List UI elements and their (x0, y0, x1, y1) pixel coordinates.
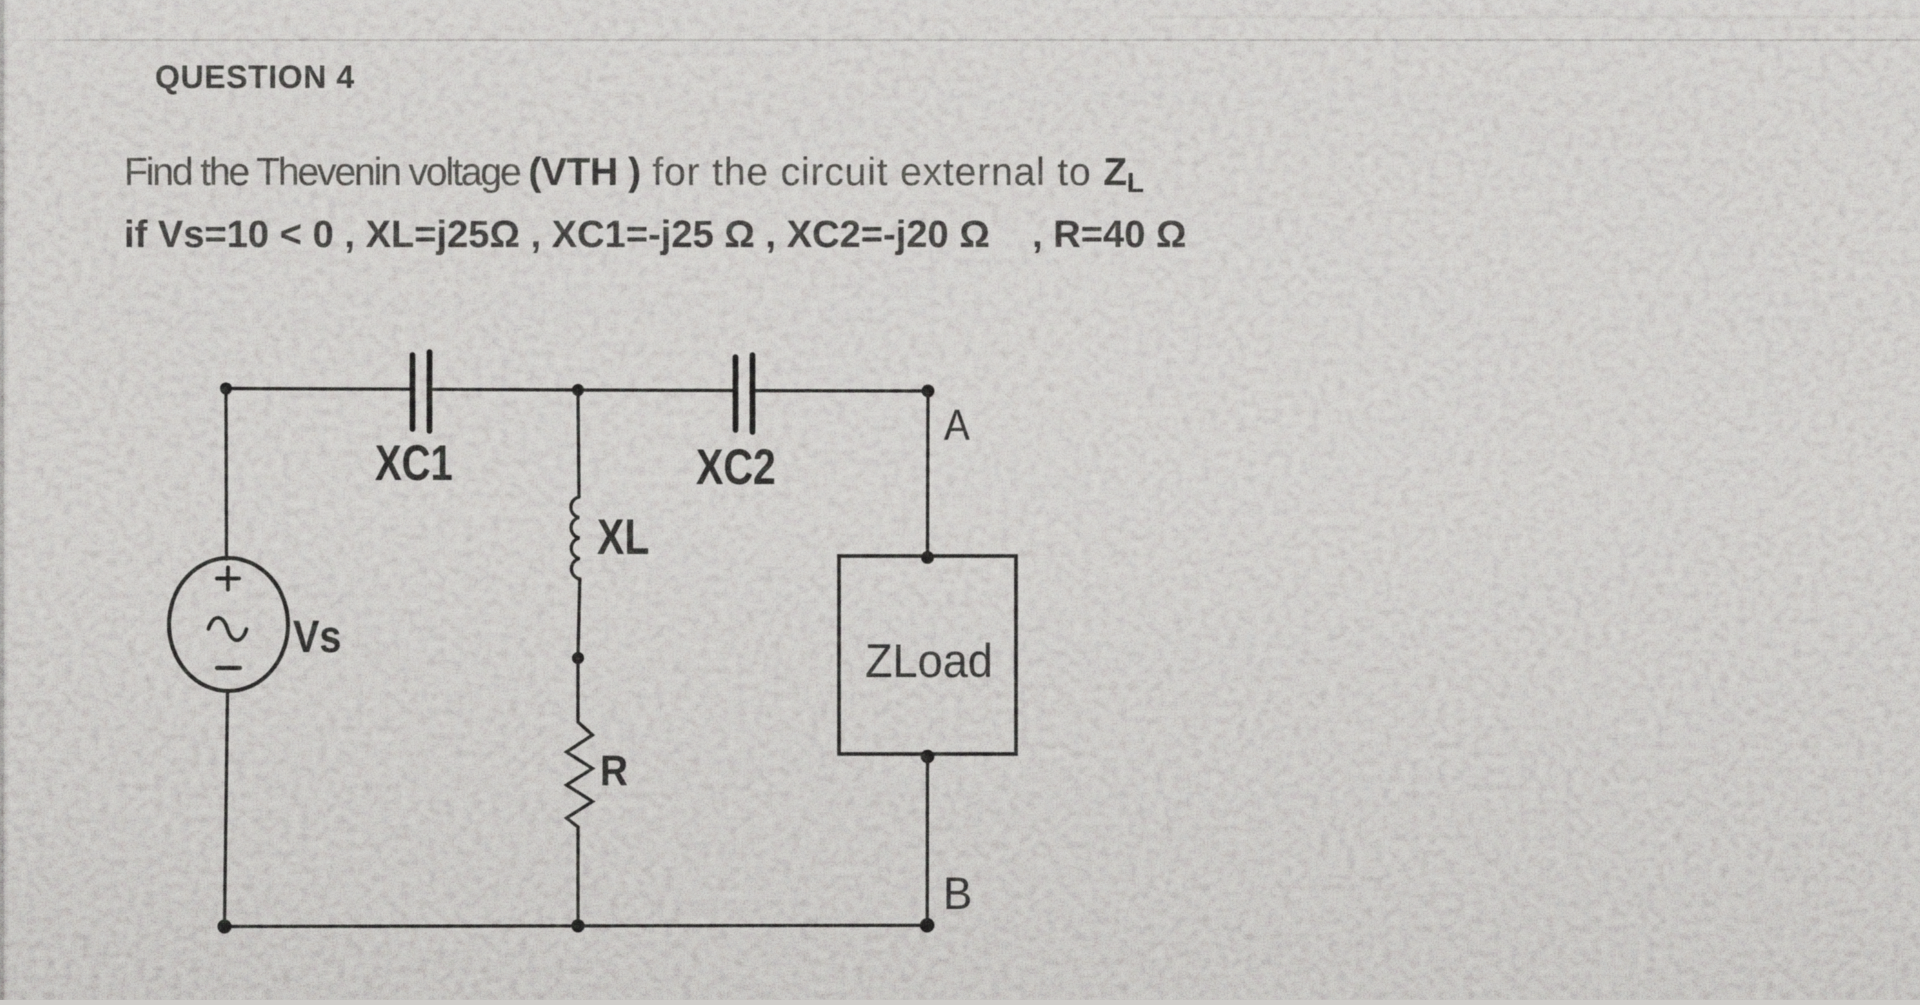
wire right vertical (node A to ZLoad) (926, 391, 930, 557)
node ZLoad top dot (921, 551, 934, 564)
node bottom-left dot (218, 920, 232, 934)
node B junction dot (920, 918, 934, 932)
svg-text:A: A (944, 400, 970, 450)
wire right vertical bottom (ZLoad to node B) (926, 757, 929, 926)
wire left vertical top (node to source) (224, 389, 228, 560)
node middle junction dot (572, 652, 584, 664)
label XC1 (375, 435, 453, 491)
wire middle bottom (resistor to bottom wire) (576, 827, 579, 926)
node ZLoad bottom dot (921, 750, 935, 764)
svg-text:Vs: Vs (293, 612, 341, 662)
svg-text:R: R (600, 746, 628, 794)
wire middle (inductor to junction) (578, 579, 580, 656)
inductor XL (571, 390, 580, 579)
capacitor XC1 (413, 352, 430, 431)
label ZLoad (865, 634, 993, 687)
label A (944, 400, 970, 450)
label XL (597, 509, 649, 565)
label B (943, 869, 972, 919)
load box ZLoad (839, 556, 1016, 754)
capacitor XC2 (736, 355, 753, 432)
label R (600, 746, 628, 794)
voltage source Vs (169, 558, 288, 691)
wire between XC1 and middle node (430, 388, 578, 392)
node top-middle junction (572, 384, 584, 396)
resistor R (567, 722, 593, 827)
svg-text:XC2: XC2 (696, 439, 776, 495)
label Vs (293, 612, 341, 662)
label XC2 (696, 439, 776, 495)
wire XC2 to node A (753, 389, 928, 393)
bottom wire (225, 925, 928, 926)
svg-text:ZLoad: ZLoad (865, 634, 993, 687)
svg-text:XC1: XC1 (375, 435, 453, 491)
node top-left junction (220, 383, 232, 395)
wire left vertical bottom (source to bottom wire) (225, 692, 228, 926)
wire middle (junction to resistor) (576, 658, 579, 722)
svg-text:XL: XL (597, 509, 649, 565)
node A junction dot (922, 385, 935, 398)
svg-text:B: B (943, 869, 972, 919)
node bottom-middle dot (571, 919, 584, 932)
wire between middle node and XC2 (578, 388, 734, 392)
wire top-left horizontal (left node to XC1) (226, 387, 411, 391)
